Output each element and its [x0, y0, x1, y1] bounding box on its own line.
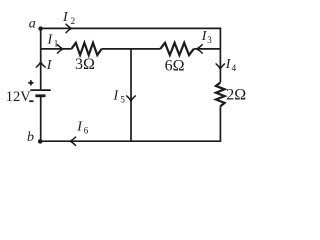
svg-text:12V: 12V	[6, 89, 32, 105]
svg-text:I: I	[46, 58, 53, 73]
arrow current I3 (left) on second row	[197, 45, 202, 53]
arrow current I1 (right) on second row	[57, 45, 62, 53]
label current I3	[201, 29, 213, 45]
svg-text:I: I	[47, 32, 54, 47]
svg-text:1: 1	[54, 38, 59, 48]
label current I	[46, 58, 53, 73]
label node b	[27, 130, 34, 145]
wire top: node a to top-right corner	[41, 27, 222, 29]
svg-text:I: I	[76, 119, 83, 134]
label current I2	[62, 10, 75, 26]
arrow current I (up) on left wire	[36, 62, 45, 67]
wire left lower: battery negative to node b	[40, 97, 42, 142]
wire second row middle: 3-ohm to 6-ohm through middle junction	[102, 48, 161, 50]
battery polarity minus sign	[29, 100, 33, 102]
resistor 2ohm (right branch)	[216, 83, 225, 107]
label current I1	[47, 32, 59, 48]
svg-text:I: I	[113, 89, 120, 104]
wire second row right: 6-ohm to right wire	[194, 48, 221, 50]
svg-text:a: a	[29, 17, 36, 32]
svg-text:4: 4	[232, 63, 237, 73]
svg-text:3Ω: 3Ω	[75, 56, 95, 73]
wire second row left: node a branch to 3-ohm	[41, 48, 72, 50]
wire right lower: 2-ohm to bottom-right corner	[219, 106, 221, 142]
value label 6-ohm	[165, 57, 185, 74]
resistor 3ohm	[72, 43, 102, 55]
label current I6	[76, 119, 89, 135]
battery polarity plus sign	[28, 80, 33, 85]
label current I4	[225, 57, 237, 73]
arrow current I5 (down) on middle wire	[127, 96, 136, 101]
svg-text:6: 6	[84, 125, 89, 135]
node a junction dot	[38, 26, 42, 30]
arrow current I2 (right) on top wire	[66, 24, 71, 32]
svg-text:2Ω: 2Ω	[226, 86, 246, 103]
value label 3-ohm	[75, 56, 95, 73]
svg-text:3: 3	[207, 35, 212, 45]
node b junction dot	[38, 139, 43, 144]
label node a	[29, 17, 36, 32]
svg-text:I: I	[62, 10, 69, 25]
resistor 6ohm	[160, 43, 194, 55]
label current I5	[113, 89, 126, 105]
wire left upper: node a down to battery positive plate	[40, 29, 42, 90]
svg-text:2: 2	[71, 16, 76, 26]
value label 12V (battery)	[6, 89, 32, 105]
arrow current I6 (left) on bottom wire	[70, 137, 75, 145]
value label 2-ohm	[226, 86, 246, 103]
svg-text:5: 5	[120, 94, 125, 104]
svg-text:b: b	[27, 130, 34, 145]
battery 12V positive plate (long)	[30, 89, 50, 91]
wire right upper: corner down to 2-ohm resistor	[219, 28, 221, 83]
battery 12V negative plate (short thick)	[35, 94, 45, 97]
svg-text:6Ω: 6Ω	[165, 57, 185, 74]
wire middle vertical: second row junction down to bottom wire	[130, 49, 132, 141]
arrow current I4 (down) on right wire	[216, 64, 224, 69]
wire bottom: node b to bottom-right corner	[40, 140, 221, 142]
